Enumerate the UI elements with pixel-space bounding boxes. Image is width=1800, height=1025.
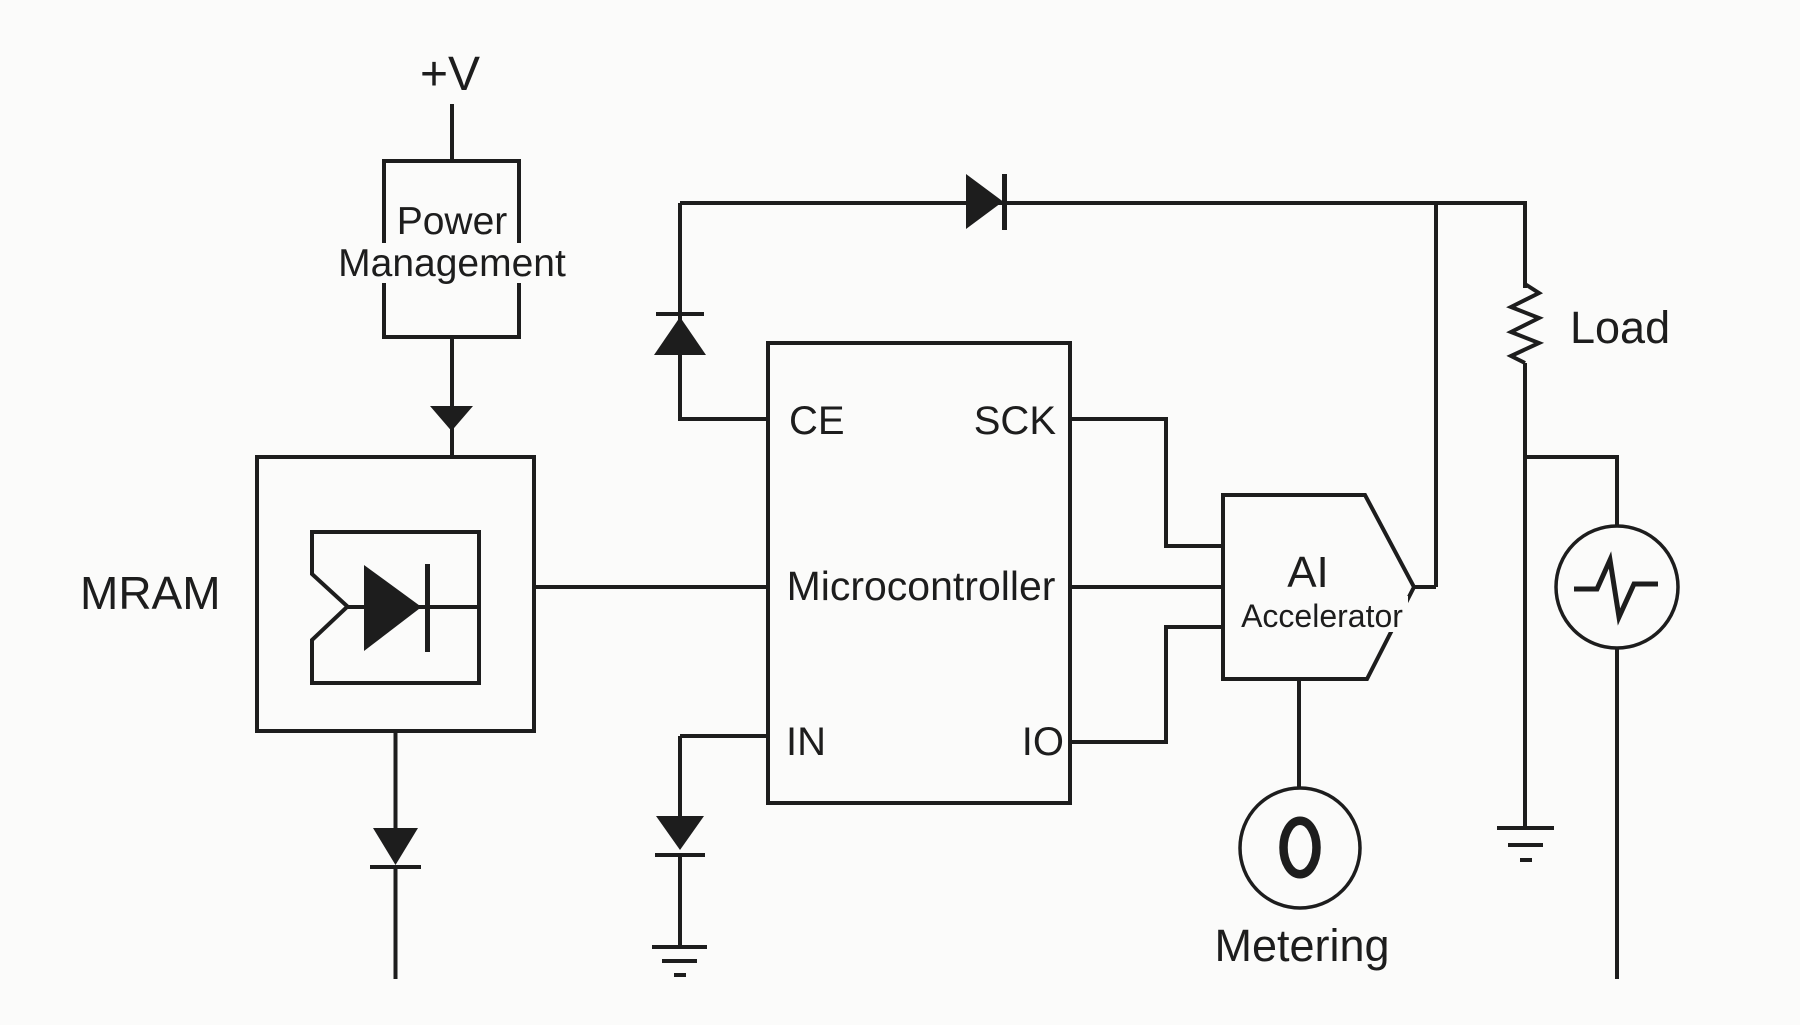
svg-text:+V: +V [420,48,480,101]
svg-text:CE: CE [789,399,845,443]
svg-text:Accelerator: Accelerator [1241,598,1403,634]
svg-text:Management: Management [338,242,566,285]
svg-text:Metering: Metering [1214,920,1389,971]
svg-text:Load: Load [1570,302,1670,353]
svg-text:IN: IN [786,720,826,764]
svg-text:IO: IO [1022,720,1064,764]
svg-text:MRAM: MRAM [80,567,221,619]
svg-text:SCK: SCK [974,399,1057,443]
svg-text:Microcontroller: Microcontroller [787,563,1056,609]
svg-text:Power: Power [397,200,508,243]
svg-text:AI: AI [1287,548,1329,597]
